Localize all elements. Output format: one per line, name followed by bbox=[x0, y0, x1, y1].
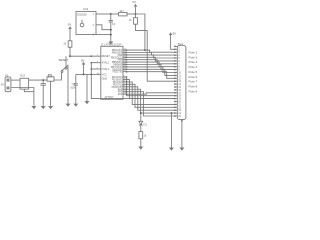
wire X1-2 to ground bbox=[11, 88, 34, 106]
wire X1-1 to IC2 IN bbox=[11, 79, 20, 81]
svg-text:5: 5 bbox=[178, 58, 180, 60]
svg-text:4: 4 bbox=[178, 55, 180, 57]
capacitor C1 lead bbox=[42, 80, 44, 84]
wire bus upper 0 to SV1 bbox=[127, 50, 175, 52]
wire switch to ground bbox=[67, 66, 69, 104]
wire B1 to ground bbox=[50, 81, 52, 106]
svg-text:7: 7 bbox=[178, 64, 180, 66]
wire bus lower 7 to SV1 bbox=[127, 93, 175, 94]
wire R3 to SV1 pin 13 bbox=[136, 24, 175, 81]
wire bus lower 6 to SV1 bbox=[127, 92, 175, 116]
supply 5V arrow VCC bbox=[82, 62, 86, 65]
node 5V tee bbox=[135, 13, 137, 15]
svg-text:2: 2 bbox=[178, 49, 180, 51]
microcontroller IC1 bbox=[101, 46, 123, 99]
node ground drop bbox=[170, 112, 172, 114]
capacitor C4 bbox=[109, 20, 113, 22]
pin stub IC3-2 bbox=[96, 24, 99, 26]
node reset junction bbox=[69, 55, 71, 57]
wire C1 to ground bbox=[42, 85, 44, 106]
svg-text:9: 9 bbox=[178, 70, 180, 72]
wire bus upper 2 to SV1 bbox=[127, 55, 175, 58]
supply 5V arrow top bbox=[134, 4, 138, 7]
svg-text:17: 17 bbox=[178, 93, 181, 95]
svg-text:Pole 1: Pole 1 bbox=[189, 50, 198, 54]
svg-text:19: 19 bbox=[178, 99, 181, 101]
wire GND down bbox=[86, 74, 88, 101]
svg-text:12: 12 bbox=[178, 78, 181, 80]
wire IC3-1 DQ bbox=[99, 13, 111, 15]
wire C2 to ground bbox=[75, 85, 77, 103]
pin stub SV1 11 bbox=[175, 74, 177, 76]
svg-text:1k: 1k bbox=[63, 42, 67, 46]
pin stub IC1 VCC bbox=[91, 73, 101, 75]
pin stub IC1 PD1(TX) bbox=[123, 71, 127, 73]
pin stub SV1 20 bbox=[175, 101, 177, 103]
pin stub SV1 5 bbox=[175, 57, 177, 59]
wire bus upper 8 to SV1 bbox=[127, 69, 175, 75]
wire 5V to R1 bbox=[69, 29, 71, 41]
wire IC2 GND bbox=[24, 89, 34, 92]
svg-text:8: 8 bbox=[178, 67, 180, 69]
pin stub SV1 18 bbox=[175, 95, 177, 97]
wire IC3-2 bbox=[99, 25, 111, 30]
svg-text:2: 2 bbox=[93, 24, 95, 27]
svg-text:C2: C2 bbox=[72, 82, 76, 86]
pin stub IC1 PD6(ICP) bbox=[123, 86, 127, 88]
svg-text:13: 13 bbox=[178, 81, 181, 83]
svg-text:11: 11 bbox=[178, 75, 181, 77]
pin stub IC1 PB7(SCK) bbox=[123, 66, 127, 68]
wire DQ to IC1 PB0 bbox=[136, 14, 145, 50]
wire VCC to IC1 bbox=[76, 73, 92, 75]
pin stub SV1 4 bbox=[175, 54, 177, 56]
svg-text:9V: 9V bbox=[1, 83, 5, 87]
pin stub SV1 22 bbox=[175, 106, 177, 108]
supply 5V arrow right bbox=[169, 32, 173, 35]
pin stub SV1 10 bbox=[175, 72, 177, 74]
svg-text:Pole 2: Pole 2 bbox=[189, 55, 198, 59]
wire R1 to reset net bbox=[69, 47, 71, 56]
connector SV1 bbox=[177, 45, 186, 119]
wire DQ to R2 bbox=[111, 13, 119, 15]
pin stub SV1 21 bbox=[175, 103, 177, 105]
pin stub IC1 PA1 bbox=[123, 91, 127, 93]
ground bbox=[48, 106, 53, 109]
pin stub IC3-1 bbox=[96, 13, 99, 15]
svg-text:25: 25 bbox=[178, 116, 181, 118]
svg-text:24: 24 bbox=[178, 113, 181, 115]
svg-text:1k: 1k bbox=[129, 18, 132, 22]
svg-text:14: 14 bbox=[178, 84, 181, 86]
svg-text:20: 20 bbox=[178, 102, 181, 104]
wire bus lower 4 to SV1 bbox=[127, 87, 175, 110]
pin stub IC1 PD4(T0) bbox=[123, 81, 127, 83]
LED D1 bbox=[139, 121, 143, 125]
svg-text:Pole 5: Pole 5 bbox=[189, 70, 198, 74]
wire bus lower 2 to SV1 bbox=[127, 82, 175, 105]
pin stub SV1 19 bbox=[175, 98, 177, 100]
resistor R1 bbox=[68, 41, 72, 47]
svg-text:RESET: RESET bbox=[59, 58, 69, 62]
connector X1 power input bbox=[5, 77, 11, 92]
pin stub SV1 16 bbox=[175, 89, 177, 91]
resistor R2 bbox=[119, 12, 127, 16]
pin stub IC1 RESET bbox=[91, 55, 101, 57]
svg-text:GND: GND bbox=[102, 78, 108, 81]
wire 5V to SV1 pin 2 bbox=[171, 35, 175, 49]
wire reset to IC1 bbox=[70, 55, 91, 57]
ground bbox=[108, 42, 113, 45]
pin stub IC1 PB4 bbox=[123, 59, 127, 61]
svg-text:6: 6 bbox=[178, 61, 180, 63]
svg-text:4k7: 4k7 bbox=[120, 9, 125, 13]
pin stub SV1 24 bbox=[175, 112, 177, 114]
svg-text:Pole 9: Pole 9 bbox=[189, 89, 198, 93]
pin stub SV1 9 bbox=[175, 69, 177, 71]
pin stub IC1 PB0(AIN) bbox=[123, 49, 127, 51]
svg-text:IC3: IC3 bbox=[83, 7, 88, 11]
temperature sensor IC3 bbox=[76, 12, 96, 35]
svg-text:21: 21 bbox=[178, 104, 181, 106]
pin stub IC1 PD0(RX) bbox=[123, 68, 127, 70]
svg-text:1k: 1k bbox=[144, 134, 147, 138]
svg-text:5V: 5V bbox=[81, 58, 85, 62]
svg-text:X1: X1 bbox=[5, 74, 9, 78]
pin stub SV1 6 bbox=[175, 60, 177, 62]
svg-text:16: 16 bbox=[178, 90, 181, 92]
pin stub SV1 3 bbox=[175, 51, 177, 53]
svg-text:IC2: IC2 bbox=[20, 74, 25, 78]
svg-text:15: 15 bbox=[178, 87, 181, 89]
svg-text:18: 18 bbox=[178, 96, 181, 98]
pin stub SV1 23 bbox=[175, 109, 177, 111]
svg-text:100n: 100n bbox=[70, 86, 76, 90]
pin stub SV1 17 bbox=[175, 92, 177, 94]
node bbox=[110, 29, 112, 31]
pin stub IC3-3 bbox=[96, 34, 99, 36]
wire B1 to switch S1 bbox=[54, 72, 62, 80]
wire to ground bbox=[170, 113, 172, 147]
supply 5V arrow R1 bbox=[68, 26, 72, 29]
pin stub IC1 PD3(INT) bbox=[123, 78, 127, 80]
svg-text:PA2: PA2 bbox=[118, 93, 123, 96]
wire bus lower 5 to SV1 bbox=[127, 89, 175, 113]
svg-text:5V: 5V bbox=[173, 31, 177, 35]
svg-text:22: 22 bbox=[178, 107, 181, 109]
wire XTAL2 route to SV1 pin 19 bbox=[91, 63, 175, 99]
svg-text:Pole 3: Pole 3 bbox=[189, 60, 198, 64]
pin stub SV1 12 bbox=[175, 77, 177, 79]
node +5V junction bbox=[42, 79, 44, 81]
ground bbox=[31, 106, 36, 109]
pin stub SV1 14 bbox=[175, 83, 177, 85]
node DQ at PB0 bbox=[144, 49, 146, 51]
ground bbox=[169, 148, 174, 151]
svg-text:5V: 5V bbox=[68, 23, 72, 27]
ground bbox=[66, 104, 71, 107]
pin stub IC1 PA2 bbox=[123, 93, 127, 95]
component B1 top tab bbox=[48, 75, 51, 77]
pin stub IC1 PB6(MI) bbox=[123, 64, 127, 66]
pin stub SV1 25 bbox=[175, 115, 177, 117]
pin stub IC1 PA0 bbox=[123, 88, 127, 90]
switch S1 terminal bbox=[61, 71, 63, 73]
svg-text:5V: 5V bbox=[132, 0, 136, 4]
node VCC junction bbox=[83, 73, 85, 75]
wire R4 to ground bbox=[140, 139, 142, 147]
wire IC2 OUT +5V bbox=[29, 79, 47, 81]
svg-text:D1: D1 bbox=[144, 123, 148, 127]
capacitor C2 lead bbox=[75, 74, 77, 83]
wire R2 to 5V node bbox=[127, 13, 136, 15]
capacitor C1 bbox=[41, 83, 47, 85]
pin stub IC1 XTAL1 bbox=[91, 68, 101, 70]
wire bus upper 9 to SV1 bbox=[127, 72, 175, 79]
svg-text:Pole 6: Pole 6 bbox=[189, 75, 198, 79]
svg-text:XTAL2: XTAL2 bbox=[102, 62, 110, 65]
wire bus upper 1 to SV1 bbox=[127, 53, 175, 56]
pin stub IC1 PB5(MO) bbox=[123, 61, 127, 63]
svg-text:Pole 7: Pole 7 bbox=[189, 80, 198, 84]
switch S1 lever bbox=[62, 65, 69, 71]
wire IC3-3 bbox=[99, 34, 111, 36]
wire bus upper 5 to SV1 bbox=[127, 62, 175, 67]
svg-text:1: 1 bbox=[93, 13, 95, 16]
svg-text:PD1(TX): PD1(TX) bbox=[113, 71, 123, 74]
svg-text:1: 1 bbox=[178, 46, 180, 48]
wire bus upper 4 to SV1 bbox=[127, 60, 175, 64]
wire bus upper 6 to SV1 bbox=[127, 65, 175, 70]
pin stub SV1 15 bbox=[175, 86, 177, 88]
ground bbox=[85, 101, 90, 104]
node LED junction bbox=[140, 112, 142, 114]
wire bus upper 7 to SV1 bbox=[127, 67, 175, 73]
resistor R3 bbox=[134, 18, 138, 25]
svg-text:IC1 AT90S2313P: IC1 AT90S2313P bbox=[101, 43, 122, 47]
resistor R4 bbox=[139, 132, 143, 139]
pin stub SV1 13 bbox=[175, 80, 177, 82]
svg-text:Pole 8: Pole 8 bbox=[189, 84, 198, 88]
pin stub SV1 7 bbox=[175, 63, 177, 65]
pin stub SV1 8 bbox=[175, 66, 177, 68]
svg-text:Pole 4: Pole 4 bbox=[189, 65, 198, 69]
wire switch to reset net bbox=[65, 56, 67, 67]
node DQ junction bbox=[110, 13, 112, 15]
pin stub SV1 2 bbox=[175, 48, 177, 50]
pin stub IC1 PB1(AIN) bbox=[123, 52, 127, 54]
wire C4 down bbox=[110, 22, 112, 35]
component B1 body bbox=[47, 77, 54, 81]
svg-text:SV1: SV1 bbox=[178, 42, 184, 46]
svg-text:DS1820: DS1820 bbox=[77, 12, 87, 16]
wire SV1 bottom pin to ground bbox=[181, 120, 183, 148]
capacitor C2 bbox=[74, 83, 78, 85]
pin stub IC1 PD5(T1) bbox=[123, 83, 127, 85]
wire bus lower 0 to SV1 bbox=[127, 77, 175, 96]
pin stub IC1 XTAL2 bbox=[91, 62, 101, 64]
svg-text:23: 23 bbox=[178, 110, 181, 112]
wire bus lower 1 to SV1 bbox=[127, 79, 175, 98]
svg-text:10: 10 bbox=[178, 73, 181, 75]
ground bbox=[41, 106, 46, 109]
switch S1 terminal bbox=[65, 67, 67, 69]
wire 5V down bbox=[83, 65, 85, 75]
ground bbox=[179, 148, 184, 151]
pin stub IC1 PD2(INT) bbox=[123, 76, 127, 78]
svg-text:VCC: VCC bbox=[102, 73, 107, 76]
ground bbox=[73, 104, 78, 107]
pin stub SV1 1 bbox=[175, 45, 177, 47]
voltage regulator IC2 78L05 bbox=[20, 78, 29, 89]
svg-text:C4: C4 bbox=[112, 22, 116, 26]
svg-text:RESET: RESET bbox=[102, 55, 111, 58]
ground bbox=[138, 147, 143, 150]
wire LED to R4 bbox=[140, 125, 142, 132]
wire 5V to R3 bbox=[135, 7, 137, 18]
pin stub IC1 PB3(OC1) bbox=[123, 56, 127, 58]
capacitor C4 lead bbox=[110, 14, 112, 21]
wire to ground bbox=[110, 35, 112, 42]
wire bus upper 3 to SV1 bbox=[127, 57, 175, 61]
node bbox=[110, 34, 112, 36]
wire bus lower 3 to SV1 bbox=[127, 84, 175, 107]
pin stub IC1 PB2 bbox=[123, 54, 127, 56]
svg-text:XTAL1: XTAL1 bbox=[102, 68, 110, 71]
svg-text:3: 3 bbox=[178, 52, 180, 54]
wire to LED D1 bbox=[140, 113, 142, 121]
svg-text:3: 3 bbox=[93, 34, 95, 37]
thermometer symbol bbox=[80, 23, 84, 27]
